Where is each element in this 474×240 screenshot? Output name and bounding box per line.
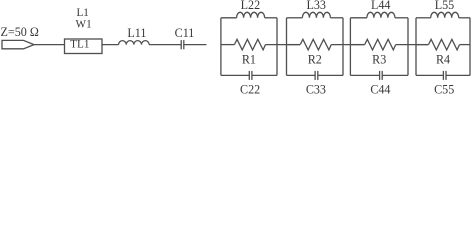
resonator 4 left edge wire xyxy=(415,18,417,76)
inductor L33 (top branch) xyxy=(287,17,303,19)
resonator 3 right edge wire xyxy=(407,18,409,76)
resistor R2 (middle branch) xyxy=(287,44,301,46)
wire C11 to resonator 1 xyxy=(184,44,207,46)
svg-text:R4: R4 xyxy=(436,52,450,66)
capacitor C44 (bottom branch) xyxy=(350,74,379,76)
resistor R4 (middle branch) xyxy=(416,44,429,46)
transmission line TL1 xyxy=(65,39,103,54)
svg-text:TL1: TL1 xyxy=(70,39,89,51)
wire R1 to next xyxy=(265,44,299,46)
resistor R1 (middle branch) xyxy=(221,44,235,46)
wire port to TL1 xyxy=(34,44,65,46)
svg-text:R3: R3 xyxy=(372,52,386,66)
wire R2 to next xyxy=(331,44,364,46)
svg-text:L22: L22 xyxy=(241,0,260,12)
svg-text:C22: C22 xyxy=(240,83,260,96)
svg-text:L1: L1 xyxy=(76,7,88,19)
resonator 1 right edge wire xyxy=(276,18,278,76)
resonator 2 right edge wire xyxy=(342,18,344,76)
inductor L22 (top branch) xyxy=(221,17,237,19)
capacitor C11 xyxy=(180,40,182,49)
svg-text:C55: C55 xyxy=(434,83,454,96)
resistor R3 (middle branch) xyxy=(350,44,364,46)
capacitor C33 (bottom branch) xyxy=(287,74,316,76)
inductor L44 (top branch) xyxy=(350,17,367,19)
svg-text:R1: R1 xyxy=(242,52,256,66)
svg-text:Z=50 Ω: Z=50 Ω xyxy=(1,25,39,39)
svg-text:W1: W1 xyxy=(76,19,92,31)
capacitor C55 (bottom branch) xyxy=(416,74,443,76)
svg-text:C11: C11 xyxy=(175,26,195,40)
resonator 2 left edge wire xyxy=(286,18,288,76)
wire L11 to C11 xyxy=(149,44,181,46)
capacitor C22 (bottom branch) xyxy=(221,74,249,76)
resonator 1 left edge wire xyxy=(220,18,222,76)
svg-text:C44: C44 xyxy=(370,83,390,96)
inductor L55 (top branch) xyxy=(416,17,431,19)
svg-text:L11: L11 xyxy=(127,26,146,40)
inductor L11 xyxy=(119,41,150,45)
resonator 3 left edge wire xyxy=(349,18,351,76)
svg-text:L55: L55 xyxy=(435,0,454,12)
svg-text:C33: C33 xyxy=(306,83,326,96)
resonator 4 right edge wire xyxy=(469,18,471,76)
port P1 (source arrow symbol) xyxy=(2,40,34,48)
svg-text:R2: R2 xyxy=(308,52,322,66)
svg-text:L44: L44 xyxy=(371,0,390,12)
wire TL1 to L11 xyxy=(102,44,119,46)
wire R4 to next xyxy=(460,44,471,46)
wire R3 to next xyxy=(396,44,428,46)
svg-text:L33: L33 xyxy=(306,0,325,12)
